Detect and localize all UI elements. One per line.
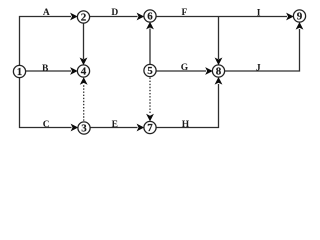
svg-text:A: A	[43, 8, 50, 18]
svg-text:D: D	[111, 8, 118, 18]
svg-text:6: 6	[147, 11, 153, 23]
svg-text:4: 4	[81, 66, 87, 78]
svg-text:H: H	[182, 120, 190, 130]
svg-text:G: G	[181, 63, 189, 73]
svg-text:1: 1	[17, 66, 23, 78]
svg-text:J: J	[256, 63, 261, 73]
svg-text:I: I	[257, 8, 261, 18]
svg-text:5: 5	[147, 65, 153, 77]
svg-text:3: 3	[81, 123, 87, 135]
svg-text:8: 8	[216, 66, 222, 78]
svg-text:B: B	[42, 64, 49, 74]
svg-text:9: 9	[297, 11, 303, 23]
svg-text:2: 2	[81, 12, 87, 24]
svg-text:C: C	[43, 120, 50, 130]
svg-text:7: 7	[147, 122, 153, 134]
svg-text:F: F	[181, 8, 187, 18]
svg-text:E: E	[112, 120, 118, 130]
